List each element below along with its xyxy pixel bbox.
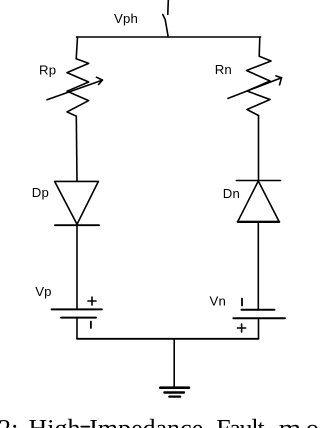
svg-text:Dn: Dn [223,186,240,201]
svg-text:Dp: Dp [32,185,49,200]
svg-text:Vph: Vph [114,11,138,26]
svg-text:Rn: Rn [215,62,232,77]
svg-text:2: High-Impedance Fault mo: 2: High-Impedance Fault mo [0,413,318,428]
svg-text:Vp: Vp [35,284,52,299]
svg-text:Rp: Rp [39,62,56,77]
svg-text:Vn: Vn [210,293,227,308]
